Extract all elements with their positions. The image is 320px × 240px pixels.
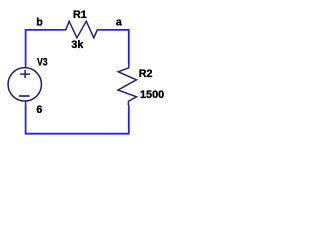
resistor R2 <box>118 64 137 105</box>
voltage source top lead <box>25 65 27 68</box>
svg-text:3k: 3k <box>71 39 83 51</box>
svg-text:R2: R2 <box>139 68 153 80</box>
svg-text:R1: R1 <box>73 9 87 21</box>
wire from R2 bottom along bottom to V3 bottom <box>26 104 129 134</box>
minus sign <box>19 95 30 97</box>
svg-text:a: a <box>116 17 123 29</box>
wire from R1 right through node a corner down to R2 top <box>101 30 129 65</box>
voltage source V3 circle <box>8 68 41 101</box>
svg-text:b: b <box>36 16 43 28</box>
voltage source bottom lead <box>25 101 27 104</box>
wire from V3 top to node b corner to R1 left <box>26 30 62 65</box>
svg-text:1500: 1500 <box>140 89 164 101</box>
plus sign <box>20 70 30 78</box>
svg-text:V3: V3 <box>37 57 48 69</box>
resistor R1 <box>62 21 101 38</box>
svg-text:6: 6 <box>36 104 42 116</box>
